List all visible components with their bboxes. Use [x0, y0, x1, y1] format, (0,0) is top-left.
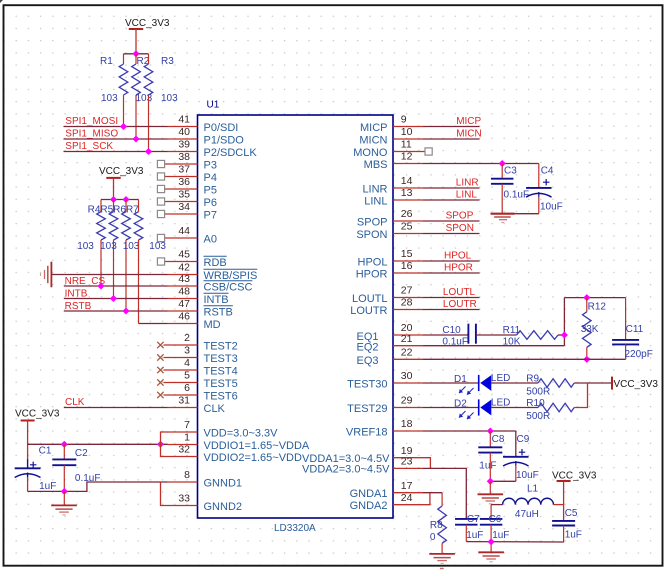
resistor R9: [526, 373, 574, 397]
svg-text:43: 43: [178, 273, 190, 285]
svg-text:29: 29: [401, 395, 413, 407]
pin 23 VDDA2=3.0~4.5V: [302, 456, 423, 476]
capacitor C11: [612, 298, 653, 360]
wire VDDA1 pin19: [423, 458, 430, 469]
wire EQ2: [423, 345, 564, 347]
svg-text:24: 24: [401, 492, 413, 504]
svg-text:9: 9: [401, 114, 407, 126]
pin 35 P6: [157, 189, 217, 209]
svg-text:RDB: RDB: [204, 257, 227, 269]
capacitor C10: [442, 324, 476, 348]
wire GNDA2 pin24: [423, 493, 430, 505]
wire SPI1_MOSI: [64, 126, 168, 128]
svg-text:44: 44: [178, 225, 190, 237]
pin 44 A0: [157, 225, 217, 245]
svg-text:SPOP: SPOP: [446, 210, 474, 221]
svg-text:220pF: 220pF: [625, 349, 653, 360]
svg-text:17: 17: [401, 480, 413, 492]
svg-text:36: 36: [178, 176, 190, 188]
svg-text:EQ3: EQ3: [356, 355, 378, 367]
svg-text:103: 103: [77, 241, 94, 252]
svg-text:VDDIO2=1.65~VDD: VDDIO2=1.65~VDD: [204, 452, 302, 464]
svg-text:0.1uF: 0.1uF: [504, 189, 530, 200]
svg-text:EQ2: EQ2: [356, 342, 378, 354]
svg-text:25: 25: [401, 221, 413, 233]
pin 32 VDDIO2=1.65~VDD: [168, 444, 302, 464]
svg-text:LD3320A: LD3320A: [274, 523, 316, 534]
svg-text:10uF: 10uF: [516, 470, 539, 481]
pin 19 VDDA1=3.0~4.5V: [302, 445, 423, 465]
pin 40 P1/SDO: [168, 126, 245, 146]
wire HPOR: [423, 272, 480, 274]
svg-text:500R: 500R: [526, 411, 550, 422]
svg-text:HPOL: HPOL: [358, 256, 388, 268]
wire EQ3: [423, 358, 626, 360]
junction R12 top: [583, 294, 590, 301]
junction R12 bottom: [583, 356, 590, 363]
ground (below R8): [429, 554, 455, 569]
svg-text:VDDA2=3.0~4.5V: VDDA2=3.0~4.5V: [302, 464, 390, 476]
ground (left, WRB/SPIS): [50, 262, 52, 288]
wire C3-C4 ground link: [502, 213, 539, 215]
pin 13 LINL: [364, 187, 423, 207]
pin 14 LINR: [362, 175, 423, 195]
svg-text:1uF: 1uF: [479, 460, 496, 471]
resistor R12: [581, 298, 607, 360]
IC U1 LD3320A body: [198, 115, 394, 518]
capacitor C8: [478, 431, 505, 481]
capacitor C4 (polarized): [526, 164, 563, 214]
svg-text:VCC_3V3: VCC_3V3: [614, 379, 659, 390]
svg-text:HPOR: HPOR: [356, 268, 388, 280]
svg-text:103: 103: [161, 93, 178, 104]
svg-text:P0/SDI: P0/SDI: [204, 122, 239, 134]
wire NRE_CS / CSB: [64, 285, 168, 287]
pin 1 VDDIO1=1.65~VDDA: [168, 432, 310, 452]
wire SPI1_MISO: [64, 138, 168, 140]
wire RSTB: [64, 310, 168, 312]
resistor R7: [134, 200, 166, 324]
svg-text:21: 21: [401, 333, 413, 345]
ground (below C3): [491, 214, 515, 223]
svg-text:41: 41: [178, 114, 190, 126]
pin 8 GNND1: [168, 469, 243, 489]
pin 20 EQ1: [356, 322, 423, 343]
pin 9 MICP: [360, 114, 423, 134]
svg-text:R11: R11: [503, 325, 521, 336]
svg-text:MICP: MICP: [360, 122, 388, 134]
pin 37 P4: [157, 164, 217, 184]
svg-text:47: 47: [178, 298, 190, 310]
svg-text:35: 35: [178, 189, 190, 201]
svg-text:1: 1: [184, 432, 190, 444]
wire pins 7/1/32 riser: [161, 432, 168, 457]
resistor R8: [430, 493, 447, 554]
svg-text:TEST5: TEST5: [204, 378, 238, 390]
wire SPON: [423, 233, 480, 235]
svg-text:VCC_3V3: VCC_3V3: [125, 18, 170, 29]
svg-text:GNDA1: GNDA1: [350, 488, 388, 500]
wire GNND2 riser: [161, 482, 168, 506]
pin 45 RDB: [157, 249, 226, 269]
svg-text:1uF: 1uF: [39, 481, 56, 492]
wire C8-C9 bottom: [490, 480, 516, 482]
svg-text:32: 32: [178, 444, 190, 456]
wire LINR: [423, 187, 480, 189]
svg-text:VDDIO1=1.65~VDDA: VDDIO1=1.65~VDDA: [204, 440, 310, 452]
wire LOUTL: [423, 297, 480, 299]
pin 11 MONO: [353, 139, 432, 159]
wire MICP: [423, 126, 480, 128]
svg-text:A0: A0: [204, 233, 217, 245]
LED D2: [423, 398, 510, 420]
wire MD: [139, 323, 168, 325]
junction R6 bottom: [122, 307, 129, 314]
svg-text:23: 23: [401, 456, 413, 468]
power VCC_3V3 (mid-left): [99, 166, 144, 200]
pin 2 TEST2: [157, 332, 238, 352]
pin 5 TEST5: [157, 370, 238, 390]
svg-text:R1: R1: [100, 56, 113, 67]
svg-text:VDD=3.0~3.3V: VDD=3.0~3.3V: [204, 427, 279, 439]
svg-text:GNND2: GNND2: [204, 501, 243, 513]
svg-text:CSB/CSC: CSB/CSC: [204, 281, 253, 293]
wire L1 to VCC/C5: [554, 504, 564, 506]
junction R2 top: [132, 50, 139, 57]
svg-text:D1: D1: [454, 374, 467, 385]
svg-text:WRB/SPIS: WRB/SPIS: [204, 270, 258, 282]
svg-text:C7: C7: [467, 514, 480, 525]
svg-text:U1: U1: [207, 100, 220, 111]
pin 28 LOUTR: [350, 297, 423, 317]
svg-text:46: 46: [178, 311, 190, 323]
pin 4 TEST4: [157, 357, 238, 377]
capacitor C5: [552, 508, 582, 543]
wire EQ node riser: [563, 298, 565, 346]
pin 26 SPOP: [357, 208, 423, 228]
svg-text:R2: R2: [137, 56, 150, 67]
wire VDD rail: [28, 443, 168, 445]
wire VDDA2 pin23: [423, 468, 466, 519]
svg-text:18: 18: [401, 418, 413, 430]
junction R5 top: [110, 196, 117, 203]
svg-text:VCC_3V3: VCC_3V3: [99, 166, 144, 177]
svg-text:MICN: MICN: [456, 128, 482, 139]
svg-text:C4: C4: [541, 166, 554, 177]
svg-text:22: 22: [401, 347, 413, 359]
svg-text:1uF: 1uF: [565, 529, 582, 540]
junction R5 bottom: [110, 295, 117, 302]
wire R11 to node: [558, 334, 564, 336]
svg-text:10uF: 10uF: [540, 202, 563, 213]
wire R10 riser to R9 net: [574, 383, 587, 408]
svg-text:103: 103: [100, 241, 117, 252]
svg-text:3: 3: [184, 345, 190, 357]
svg-text:30: 30: [401, 370, 413, 382]
svg-text:42: 42: [178, 262, 190, 274]
inductor L1: [503, 483, 554, 520]
pin 43 CSB/CSC: [168, 273, 253, 293]
svg-text:C3: C3: [504, 166, 517, 177]
LED D1: [423, 373, 510, 395]
wire C6 to L1: [491, 504, 503, 506]
svg-text:38: 38: [178, 151, 190, 163]
pin 31 CLK: [168, 395, 226, 415]
pin 34 P7: [157, 201, 217, 221]
junction R3/SCK: [145, 148, 152, 155]
svg-text:LOUTR: LOUTR: [350, 305, 387, 317]
svg-text:LOUTL: LOUTL: [443, 287, 476, 298]
junction C8 bottom: [487, 478, 494, 485]
svg-text:C5: C5: [565, 508, 578, 519]
svg-text:LINL: LINL: [364, 195, 387, 207]
wire D1 to R9: [491, 382, 538, 384]
capacitor C9 (polarized): [503, 431, 539, 481]
svg-text:45: 45: [178, 249, 190, 261]
svg-text:39: 39: [178, 139, 190, 151]
svg-text:SPOP: SPOP: [357, 216, 388, 228]
wire GNDA1 pin17: [423, 492, 442, 494]
power VCC_3V3 (top): [125, 18, 170, 54]
wire HPOL: [423, 260, 480, 262]
junction C3 top: [499, 160, 506, 167]
junction R6 top: [122, 196, 129, 203]
svg-text:TEST2: TEST2: [204, 340, 238, 352]
capacitor C3: [491, 164, 529, 214]
wire EQ1 to C10: [423, 334, 468, 336]
svg-text:C2: C2: [75, 448, 88, 459]
wire LOUTR: [423, 309, 480, 311]
svg-text:TEST3: TEST3: [204, 353, 238, 365]
wire LINL: [423, 199, 480, 201]
wire MBS: [423, 163, 539, 165]
svg-text:12: 12: [401, 151, 413, 163]
svg-text:P1/SDO: P1/SDO: [204, 134, 245, 146]
pin 47 RSTB: [168, 298, 233, 318]
wire WRB/SPIS: [51, 274, 167, 276]
svg-text:P5: P5: [204, 184, 217, 196]
svg-text:SPON: SPON: [356, 229, 387, 241]
svg-text:6: 6: [184, 382, 190, 394]
svg-text:TEST6: TEST6: [204, 390, 238, 402]
svg-text:33K: 33K: [581, 324, 599, 335]
svg-text:P3: P3: [204, 159, 217, 171]
svg-text:LOUTL: LOUTL: [352, 293, 387, 305]
pin 33 GNND2: [168, 493, 243, 513]
wire CLK: [64, 407, 168, 409]
junction C8 top: [487, 427, 494, 434]
wire INTB: [64, 298, 168, 300]
junction R2/MISO: [132, 135, 139, 142]
svg-text:28: 28: [401, 297, 413, 309]
resistor R4: [77, 200, 105, 287]
svg-text:R8: R8: [430, 520, 443, 531]
svg-text:CLK: CLK: [204, 403, 226, 415]
pin 27 LOUTL: [352, 285, 423, 305]
svg-text:33: 33: [178, 493, 190, 505]
pin 15 HPOL: [358, 248, 423, 268]
svg-text:16: 16: [401, 260, 413, 272]
wire SPI1_SCK: [64, 151, 168, 153]
svg-text:P7: P7: [204, 209, 217, 221]
wire D2 to R10: [491, 407, 538, 409]
pin 17 GNDA1: [350, 480, 423, 500]
junction C2 bottom: [61, 488, 68, 495]
svg-text:40: 40: [178, 126, 190, 138]
svg-text:LINR: LINR: [362, 183, 387, 195]
svg-text:103: 103: [123, 241, 140, 252]
wire MICN: [423, 138, 480, 140]
svg-text:C1: C1: [39, 446, 52, 457]
svg-text:MICP: MICP: [456, 116, 481, 127]
svg-text:VREF18: VREF18: [346, 426, 388, 438]
pin 39 P2/SDCLK: [168, 139, 258, 159]
svg-text:R12: R12: [588, 302, 607, 313]
svg-text:47uH: 47uH: [515, 509, 539, 520]
junction C6 bottom: [488, 538, 495, 545]
svg-text:10: 10: [401, 126, 413, 138]
svg-text:8: 8: [184, 469, 190, 481]
junction EQ node: [561, 331, 568, 338]
wire R1-R3 top rail: [124, 53, 149, 55]
svg-text:MBS: MBS: [364, 159, 388, 171]
svg-text:LINR: LINR: [456, 177, 479, 188]
svg-text:GNDA2: GNDA2: [350, 500, 388, 512]
wire R9 to VCC: [574, 382, 612, 384]
pin 30 TEST30: [347, 370, 423, 390]
pin 12 MBS: [364, 151, 423, 171]
svg-text:CLK: CLK: [65, 397, 85, 408]
svg-text:P4: P4: [204, 172, 217, 184]
wire SPOP: [423, 220, 480, 222]
svg-text:7: 7: [184, 419, 190, 431]
resistor R6: [122, 200, 140, 312]
ground (below C8): [478, 481, 504, 504]
svg-text:15: 15: [401, 248, 413, 260]
svg-text:TEST30: TEST30: [347, 378, 387, 390]
svg-text:103: 103: [101, 93, 118, 104]
pin 7 VDD=3.0~3.3V: [168, 419, 279, 439]
svg-text:27: 27: [401, 285, 413, 297]
svg-text:GNND1: GNND1: [204, 477, 243, 489]
pin 18 VREF18: [346, 418, 423, 438]
svg-text:SPON: SPON: [446, 223, 474, 234]
svg-text:TEST29: TEST29: [347, 403, 387, 415]
svg-text:13: 13: [401, 187, 413, 199]
ground (below C2): [51, 491, 77, 515]
pin 41 P0/SDI: [168, 114, 239, 134]
pin 42 WRB/SPIS: [168, 262, 258, 282]
power VCC_3V3 (LED pullups): [612, 377, 658, 390]
svg-text:TEST4: TEST4: [204, 365, 238, 377]
wire GNND1: [28, 482, 168, 491]
wire R4-R7 top rail: [101, 199, 139, 201]
svg-text:4: 4: [184, 357, 190, 369]
svg-text:103: 103: [149, 241, 166, 252]
resistor R2: [132, 54, 153, 139]
pin 46 MD: [168, 311, 221, 331]
resistor R11: [503, 325, 558, 348]
svg-text:MD: MD: [204, 319, 221, 331]
resistor R10: [526, 398, 574, 422]
pin 22 EQ3: [356, 347, 423, 368]
svg-text:SPI1_MISO: SPI1_MISO: [65, 129, 118, 140]
svg-text:48: 48: [178, 286, 190, 298]
svg-text:SPI1_SCK: SPI1_SCK: [65, 141, 113, 152]
capacitor C1: [15, 446, 57, 492]
svg-text:HPOL: HPOL: [444, 250, 472, 261]
svg-text:2: 2: [184, 332, 190, 344]
svg-text:500R: 500R: [526, 386, 550, 397]
svg-text:34: 34: [178, 201, 190, 213]
resistor R1: [100, 54, 128, 127]
resistor R5: [100, 200, 118, 299]
resistor R3: [144, 54, 178, 152]
power VCC_3V3 (bottom-left): [15, 409, 60, 460]
svg-text:P2/SDCLK: P2/SDCLK: [204, 147, 258, 159]
pin 10 MICN: [359, 126, 423, 146]
ground (below C6): [478, 551, 504, 553]
wire ground rail C7-C6-C5: [466, 541, 563, 543]
pin 3 TEST3: [157, 345, 238, 365]
svg-text:C6: C6: [489, 514, 502, 525]
svg-text:P6: P6: [204, 197, 217, 209]
junction R1/MOSI: [120, 123, 127, 130]
svg-text:INTB: INTB: [204, 294, 229, 306]
junction C2 top: [61, 441, 68, 448]
pin 25 SPON: [356, 221, 423, 241]
wire EQ top rail: [564, 297, 625, 299]
svg-text:RSTB: RSTB: [204, 306, 233, 318]
pin 36 P5: [157, 176, 217, 196]
svg-text:MICN: MICN: [359, 134, 387, 146]
svg-text:0: 0: [430, 532, 436, 543]
svg-text:C10: C10: [442, 325, 461, 336]
pin 38 P3: [157, 151, 217, 171]
pin 16 HPOR: [356, 260, 423, 280]
pin 48 INTB: [168, 286, 229, 306]
pin 29 TEST29: [347, 395, 423, 415]
junction VDD rail / pins 7-32 riser: [157, 441, 164, 448]
svg-text:31: 31: [178, 395, 190, 407]
pin 21 EQ2: [356, 333, 423, 354]
svg-text:14: 14: [401, 175, 413, 187]
svg-text:R3: R3: [161, 56, 174, 67]
svg-text:26: 26: [401, 208, 413, 220]
svg-text:C11: C11: [626, 324, 644, 335]
svg-text:LINL: LINL: [456, 189, 478, 200]
svg-text:1uF: 1uF: [492, 530, 509, 541]
svg-text:MONO: MONO: [353, 147, 388, 159]
power VCC_3V3 (analog): [552, 471, 597, 521]
svg-text:HPOR: HPOR: [444, 262, 473, 273]
svg-text:R9: R9: [526, 373, 539, 384]
svg-text:C8: C8: [492, 434, 505, 445]
svg-text:D2: D2: [454, 399, 467, 410]
wire VREF18: [423, 430, 516, 432]
pin 24 GNDA2: [350, 492, 423, 512]
capacitor C7: [455, 514, 483, 542]
svg-text:37: 37: [178, 164, 190, 176]
svg-text:LOUTR: LOUTR: [443, 299, 477, 310]
svg-text:R10: R10: [526, 398, 545, 409]
junction R4 bottom: [97, 282, 104, 289]
svg-text:1uF: 1uF: [466, 530, 483, 541]
svg-text:11: 11: [401, 139, 412, 151]
capacitor C2: [52, 444, 100, 491]
pin 6 TEST6: [157, 382, 238, 402]
wire C10 to R11: [476, 334, 517, 336]
